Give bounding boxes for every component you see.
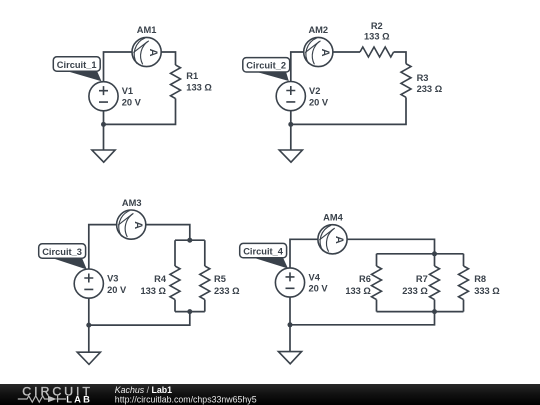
ground (77, 352, 100, 364)
wire R5 branch (204, 240, 206, 311)
svg-text:133 Ω: 133 Ω (140, 286, 166, 296)
wire R1 bottom to node (104, 99, 176, 125)
svg-text:233 Ω: 233 Ω (402, 286, 428, 296)
label AM4 (323, 213, 343, 223)
wire AM2 to R2 (333, 51, 360, 53)
svg-text:V2: V2 (309, 86, 320, 96)
ground (92, 150, 115, 162)
wire V1 bottom to ground node (103, 111, 105, 150)
wire R4 branch (174, 240, 176, 311)
svg-text:20 V: 20 V (309, 284, 329, 294)
wire V3 top to AM3 (89, 225, 117, 269)
ammeter AM2 (304, 37, 333, 66)
voltage source V2 (276, 82, 305, 111)
svg-text:R3: R3 (417, 73, 429, 83)
footer title Kachus / Lab1 (115, 385, 172, 395)
ground (278, 352, 301, 364)
voltage source V1 (89, 82, 118, 111)
label AM2 (308, 25, 328, 35)
svg-text:20 V: 20 V (309, 97, 329, 107)
junction node bottom (187, 309, 192, 314)
label R1 133 Ω (186, 71, 212, 92)
svg-text:R5: R5 (214, 274, 226, 284)
wire V3 bottom to ground node (88, 298, 90, 352)
ground (279, 150, 302, 162)
svg-text:http://circuitlab.com/chps33nw: http://circuitlab.com/chps33nw65hy5 (115, 395, 257, 405)
wire V1 top to AM1 (104, 52, 133, 82)
wire bottom bar (175, 311, 205, 313)
footer bar (0, 384, 540, 405)
svg-text:R7: R7 (416, 274, 428, 284)
wire V4 top to AM4 (290, 239, 318, 268)
resistor R8 (459, 266, 469, 300)
label R6 133 Ω (345, 274, 371, 296)
wire R8 branch (463, 254, 465, 312)
wire R6 branch (376, 254, 378, 312)
svg-text:V1: V1 (122, 86, 133, 96)
junction node top (432, 251, 437, 256)
resistor R3 (401, 64, 411, 98)
junction node top (187, 238, 192, 243)
voltage source V4 (275, 268, 304, 297)
svg-text:AM1: AM1 (137, 25, 157, 35)
wire parallel bottom to node (290, 312, 435, 325)
ammeter AM3 (117, 210, 146, 239)
wire top bar (377, 253, 464, 255)
svg-text:333 Ω: 333 Ω (474, 286, 500, 296)
label R7 233 Ω (402, 274, 428, 296)
label V1 20 V (122, 86, 142, 107)
label R5 233 Ω (214, 274, 240, 296)
junction node (288, 122, 293, 127)
wire bottom bar (377, 311, 464, 313)
wire R3 bottom to node (291, 97, 406, 124)
label V4 20 V (309, 272, 329, 293)
label AM1 (137, 25, 157, 35)
svg-text:R6: R6 (359, 274, 371, 284)
wire AM3 to parallel top node (146, 225, 190, 241)
label R3 233 Ω (417, 73, 443, 94)
resistor R2 (360, 47, 394, 57)
wire V4 bottom to ground node (289, 297, 291, 352)
wire R7 branch (434, 254, 436, 312)
svg-text:133 Ω: 133 Ω (186, 82, 212, 92)
wire V2 bottom to ground node (290, 111, 292, 150)
resistor R6 (372, 266, 382, 300)
wire R2 to R3 top (394, 52, 406, 64)
svg-text:R4: R4 (154, 274, 167, 284)
node Circuit_1 label (53, 57, 101, 81)
svg-text:233 Ω: 233 Ω (214, 286, 240, 296)
svg-text:V3: V3 (107, 273, 118, 283)
label V2 20 V (309, 86, 329, 107)
junction node bottom (432, 309, 437, 314)
label AM3 (122, 198, 142, 208)
junction node at source (288, 322, 293, 327)
wire top bar (175, 239, 205, 241)
resistor R7 (430, 266, 440, 300)
footer url (115, 395, 257, 405)
ammeter AM1 (132, 37, 161, 66)
svg-text:R1: R1 (186, 71, 198, 81)
svg-text:Circuit_1: Circuit_1 (57, 60, 97, 70)
label V3 20 V (107, 273, 127, 294)
svg-text:20 V: 20 V (122, 97, 142, 107)
svg-text:133 Ω: 133 Ω (364, 32, 390, 42)
label R4 133 Ω (140, 274, 166, 296)
node Circuit_2 label (243, 58, 290, 81)
CircuitLab logo (18, 384, 93, 404)
junction node at source (86, 323, 91, 328)
node Circuit_3 label (39, 244, 87, 270)
node Circuit_4 label (240, 243, 288, 268)
svg-text:233 Ω: 233 Ω (417, 84, 443, 94)
svg-text:LAB: LAB (66, 394, 92, 405)
resistor R1 (171, 65, 181, 99)
svg-text:AM2: AM2 (308, 25, 328, 35)
wire AM4 to parallel top node (347, 239, 434, 254)
svg-text:Circuit_2: Circuit_2 (246, 61, 286, 71)
wire parallel bottom to node (89, 312, 190, 326)
junction node (101, 122, 106, 127)
wire V2 top to AM2 (291, 52, 304, 82)
svg-text:R2: R2 (371, 21, 383, 31)
svg-text:AM3: AM3 (122, 198, 142, 208)
ammeter AM4 (318, 225, 347, 254)
svg-text:Circuit_3: Circuit_3 (42, 247, 82, 257)
svg-text:133 Ω: 133 Ω (345, 286, 371, 296)
label R8 333 Ω (474, 274, 500, 296)
svg-text:R8: R8 (474, 274, 486, 284)
svg-text:Circuit_4: Circuit_4 (243, 246, 284, 256)
label R2 133 Ω (364, 21, 390, 42)
wire AM1 to R1 top (161, 52, 175, 65)
resistor R5 (200, 266, 210, 300)
voltage source V3 (74, 269, 103, 298)
svg-text:V4: V4 (309, 272, 321, 282)
svg-text:20 V: 20 V (107, 285, 127, 295)
resistor R4 (170, 266, 180, 300)
svg-text:AM4: AM4 (323, 213, 343, 223)
